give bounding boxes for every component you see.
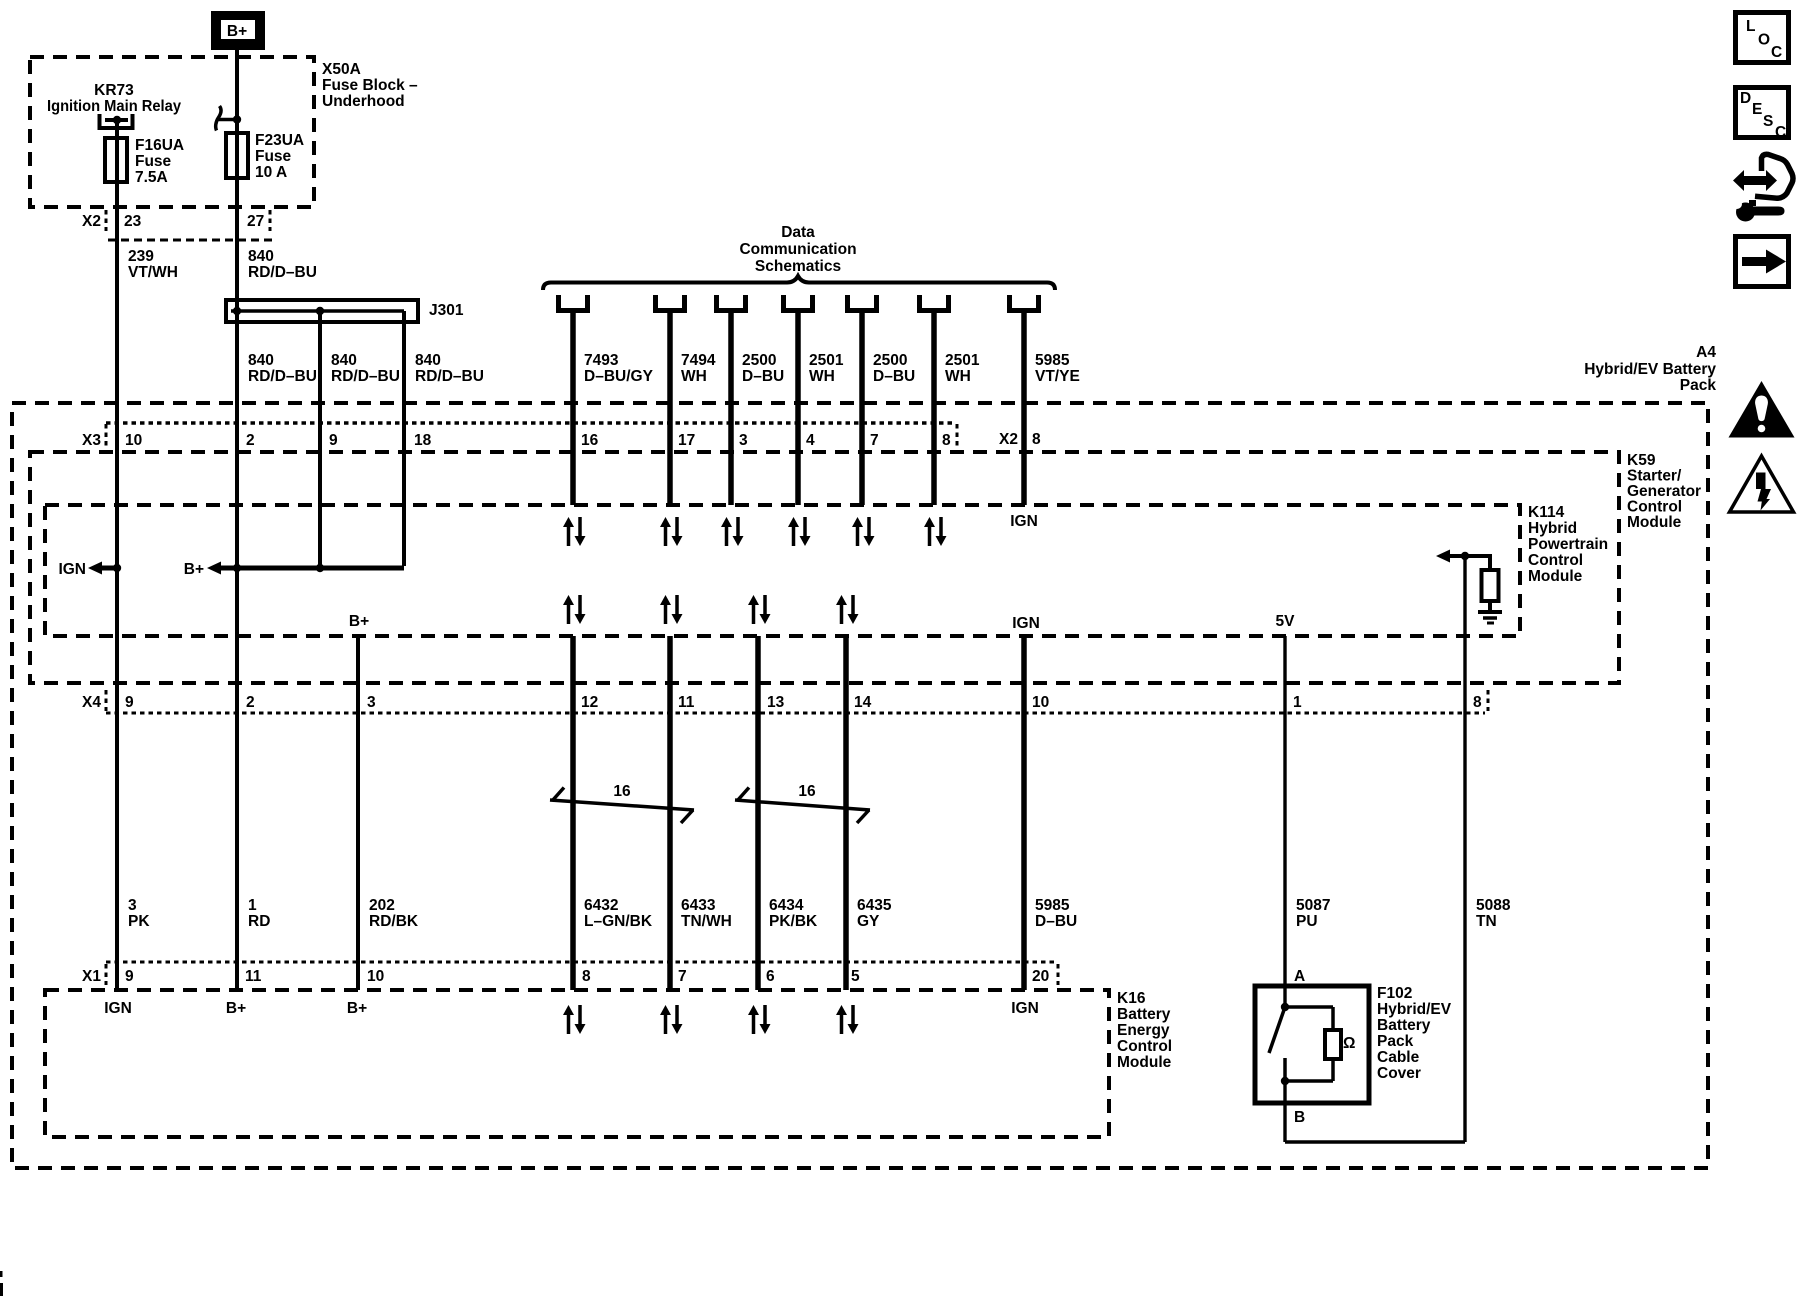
svg-text:B+: B+	[349, 613, 369, 630]
svg-text:5985: 5985	[1035, 352, 1070, 369]
svg-text:840: 840	[331, 352, 357, 369]
svg-text:F102: F102	[1377, 985, 1412, 1002]
svg-text:D–BU: D–BU	[742, 368, 784, 385]
svg-text:Schematics: Schematics	[755, 258, 841, 275]
svg-text:F23UA: F23UA	[255, 132, 304, 149]
svg-text:GY: GY	[857, 913, 880, 930]
svg-text:A4: A4	[1696, 344, 1716, 361]
svg-text:PK: PK	[128, 913, 150, 930]
svg-text:840: 840	[248, 248, 274, 265]
svg-text:RD/D–BU: RD/D–BU	[331, 368, 400, 385]
svg-text:Energy: Energy	[1117, 1022, 1170, 1039]
svg-text:Communication: Communication	[739, 241, 856, 258]
svg-text:X2: X2	[82, 213, 101, 230]
svg-text:L: L	[1746, 18, 1755, 35]
svg-text:16: 16	[613, 783, 631, 800]
svg-text:7.5A: 7.5A	[135, 169, 168, 186]
svg-text:Battery: Battery	[1377, 1017, 1431, 1034]
svg-text:Fuse: Fuse	[135, 153, 172, 170]
svg-text:5V: 5V	[1276, 613, 1296, 630]
svg-text:Underhood: Underhood	[322, 93, 405, 110]
svg-text:E: E	[1752, 101, 1762, 118]
svg-text:2501: 2501	[945, 352, 980, 369]
svg-text:VT/WH: VT/WH	[128, 264, 178, 281]
svg-text:2501: 2501	[809, 352, 844, 369]
svg-text:VT/YE: VT/YE	[1035, 368, 1080, 385]
svg-text:6435: 6435	[857, 897, 892, 914]
svg-text:F16UA: F16UA	[135, 137, 184, 154]
svg-text:X3: X3	[82, 432, 101, 449]
svg-text:3: 3	[128, 897, 137, 914]
svg-text:WH: WH	[945, 368, 971, 385]
svg-text:RD/D–BU: RD/D–BU	[415, 368, 484, 385]
svg-text:PK/BK: PK/BK	[769, 913, 818, 930]
svg-text:Pack: Pack	[1377, 1033, 1414, 1050]
svg-text:239: 239	[128, 248, 154, 265]
svg-text:16: 16	[581, 432, 599, 449]
svg-text:C: C	[1771, 44, 1782, 61]
svg-text:8: 8	[942, 432, 951, 449]
svg-text:K16: K16	[1117, 990, 1146, 1007]
svg-text:IGN: IGN	[1010, 513, 1038, 530]
svg-text:20: 20	[1032, 968, 1049, 985]
svg-text:18: 18	[414, 432, 432, 449]
svg-text:7494: 7494	[681, 352, 716, 369]
svg-text:Cover: Cover	[1377, 1065, 1421, 1082]
svg-text:Hybrid/EV Battery: Hybrid/EV Battery	[1584, 361, 1716, 378]
svg-text:10 A: 10 A	[255, 164, 287, 181]
svg-text:IGN: IGN	[58, 561, 86, 578]
svg-text:TN/WH: TN/WH	[681, 913, 732, 930]
svg-text:B+: B+	[227, 23, 247, 40]
svg-text:4: 4	[806, 432, 815, 449]
svg-text:Module: Module	[1117, 1054, 1172, 1071]
svg-text:23: 23	[124, 213, 142, 230]
svg-text:13: 13	[767, 694, 785, 711]
svg-text:Powertrain: Powertrain	[1528, 536, 1608, 553]
svg-text:5087: 5087	[1296, 897, 1330, 914]
svg-text:10: 10	[125, 432, 142, 449]
svg-text:2500: 2500	[742, 352, 776, 369]
svg-text:1: 1	[248, 897, 257, 914]
svg-text:9: 9	[125, 968, 134, 985]
svg-text:B+: B+	[226, 1000, 246, 1017]
svg-text:Hybrid: Hybrid	[1528, 520, 1577, 537]
svg-text:7: 7	[870, 432, 879, 449]
svg-text:Generator: Generator	[1627, 483, 1701, 500]
svg-text:9: 9	[125, 694, 134, 711]
svg-text:Hybrid/EV: Hybrid/EV	[1377, 1001, 1452, 1018]
svg-text:202: 202	[369, 897, 395, 914]
svg-text:X1: X1	[82, 968, 101, 985]
svg-text:IGN: IGN	[1012, 615, 1040, 632]
svg-text:L–GN/BK: L–GN/BK	[584, 913, 653, 930]
svg-text:2: 2	[246, 694, 255, 711]
svg-text:Ignition Main Relay: Ignition Main Relay	[47, 98, 181, 115]
svg-text:X2: X2	[999, 431, 1018, 448]
svg-text:17: 17	[678, 432, 695, 449]
svg-text:B+: B+	[347, 1000, 367, 1017]
svg-text:RD/D–BU: RD/D–BU	[248, 368, 317, 385]
svg-text:B: B	[1294, 1109, 1305, 1126]
svg-text:8: 8	[1473, 694, 1482, 711]
svg-text:WH: WH	[681, 368, 707, 385]
svg-text:2: 2	[246, 432, 255, 449]
svg-text:11: 11	[245, 968, 262, 985]
svg-text:27: 27	[247, 213, 264, 230]
svg-text:K59: K59	[1627, 452, 1656, 469]
svg-text:Control: Control	[1528, 552, 1583, 569]
svg-text:840: 840	[248, 352, 274, 369]
svg-text:16: 16	[798, 783, 816, 800]
svg-text:X50A: X50A	[322, 61, 361, 78]
svg-text:3: 3	[739, 432, 748, 449]
svg-text:Ω: Ω	[1343, 1035, 1355, 1052]
svg-text:D: D	[1740, 90, 1751, 107]
svg-text:K114: K114	[1528, 504, 1565, 521]
svg-text:Control: Control	[1627, 499, 1682, 516]
svg-text:RD/BK: RD/BK	[369, 913, 419, 930]
svg-text:6434: 6434	[769, 897, 804, 914]
svg-text:TN: TN	[1476, 913, 1497, 930]
svg-text:Cable: Cable	[1377, 1049, 1420, 1066]
svg-text:10: 10	[1032, 694, 1049, 711]
svg-text:12: 12	[581, 694, 598, 711]
svg-text:Module: Module	[1627, 514, 1682, 531]
svg-text:PU: PU	[1296, 913, 1318, 930]
svg-text:6432: 6432	[584, 897, 618, 914]
svg-text:14: 14	[854, 694, 872, 711]
svg-text:C: C	[1775, 124, 1786, 141]
svg-text:3: 3	[367, 694, 376, 711]
svg-text:8: 8	[582, 968, 591, 985]
svg-text:IGN: IGN	[1011, 1000, 1039, 1017]
svg-text:O: O	[1758, 32, 1770, 49]
svg-text:1: 1	[1293, 694, 1302, 711]
svg-text:RD: RD	[248, 913, 270, 930]
svg-text:A: A	[1294, 968, 1305, 985]
svg-text:Module: Module	[1528, 568, 1583, 585]
svg-text:2500: 2500	[873, 352, 907, 369]
svg-text:Control: Control	[1117, 1038, 1172, 1055]
svg-text:Pack: Pack	[1680, 377, 1717, 394]
svg-text:Data: Data	[781, 224, 815, 241]
svg-text:D–BU: D–BU	[1035, 913, 1077, 930]
svg-text:D–BU: D–BU	[873, 368, 915, 385]
svg-text:7493: 7493	[584, 352, 619, 369]
svg-text:Battery: Battery	[1117, 1006, 1171, 1023]
svg-text:X4: X4	[82, 694, 101, 711]
svg-text:Starter/: Starter/	[1627, 468, 1682, 485]
svg-text:8: 8	[1032, 431, 1041, 448]
svg-text:Fuse Block –: Fuse Block –	[322, 77, 418, 94]
svg-text:S: S	[1763, 113, 1773, 130]
svg-text:IGN: IGN	[104, 1000, 132, 1017]
svg-text:5985: 5985	[1035, 897, 1070, 914]
svg-text:5: 5	[851, 968, 860, 985]
svg-text:10: 10	[367, 968, 384, 985]
svg-text:9: 9	[329, 432, 338, 449]
svg-text:WH: WH	[809, 368, 835, 385]
svg-text:RD/D–BU: RD/D–BU	[248, 264, 317, 281]
svg-text:D–BU/GY: D–BU/GY	[584, 368, 654, 385]
svg-text:6433: 6433	[681, 897, 716, 914]
svg-text:KR73: KR73	[94, 82, 134, 99]
svg-text:J301: J301	[429, 302, 464, 319]
svg-text:6: 6	[766, 968, 775, 985]
svg-text:Fuse: Fuse	[255, 148, 292, 165]
svg-text:7: 7	[678, 968, 687, 985]
svg-text:5088: 5088	[1476, 897, 1511, 914]
svg-text:B+: B+	[184, 561, 204, 578]
svg-text:840: 840	[415, 352, 441, 369]
svg-text:11: 11	[678, 694, 695, 711]
